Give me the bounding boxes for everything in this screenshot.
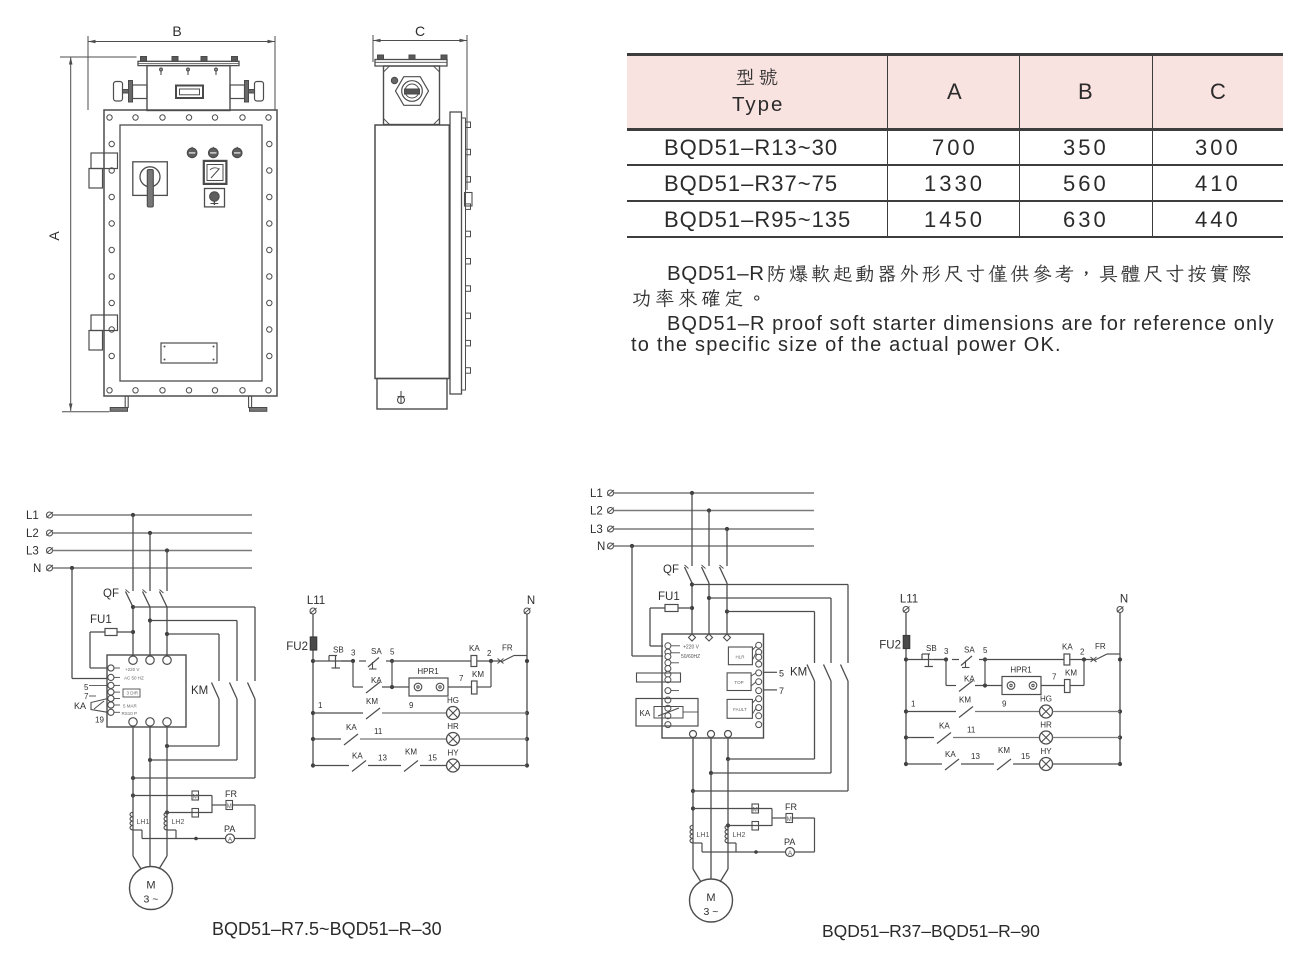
svg-text:KM: KM [472,670,484,679]
svg-text:HG: HG [447,696,459,705]
svg-text:LH2: LH2 [733,832,746,839]
svg-text:PA: PA [224,824,235,834]
svg-text:KA: KA [1062,643,1073,652]
svg-text:SA: SA [964,646,975,655]
svg-text:FR: FR [502,644,513,653]
svg-text:HR: HR [1040,721,1052,730]
svg-text:9: 9 [409,701,414,710]
svg-text:RS10 P: RS10 P [122,711,138,716]
svg-text:HPR1: HPR1 [1010,666,1032,675]
svg-text:LH2: LH2 [172,819,185,826]
svg-text:C: C [415,23,425,39]
svg-text:N: N [1120,594,1128,606]
svg-text:TOP: TOP [734,680,743,685]
svg-text:L2: L2 [26,528,39,540]
svg-text:QF: QF [103,588,119,600]
svg-text:KA: KA [469,644,480,653]
svg-text:KM: KM [405,748,417,757]
svg-text:50/60HZ: 50/60HZ [681,654,700,660]
svg-text:LH1: LH1 [697,832,710,839]
svg-text:5: 5 [983,646,988,655]
svg-text:FU1: FU1 [90,614,112,626]
svg-text:SB: SB [926,644,937,653]
svg-text:SB: SB [333,646,344,655]
svg-text:7: 7 [459,674,464,683]
svg-text:HPR1: HPR1 [417,667,439,676]
svg-text:A: A [788,850,793,857]
svg-text:L11: L11 [900,594,918,606]
svg-text:1: 1 [911,700,916,709]
svg-text:HY: HY [1040,747,1052,756]
svg-text:5 MAR: 5 MAR [123,704,138,709]
svg-text:KA: KA [346,723,357,732]
svg-text:+220 V: +220 V [125,667,139,672]
svg-text:7: 7 [84,692,89,701]
svg-text:M: M [753,808,758,814]
svg-text:KA: KA [74,701,86,711]
svg-text:L2: L2 [590,506,603,518]
svg-text:M: M [146,880,155,892]
svg-text:QF: QF [663,564,679,576]
svg-text:2: 2 [1080,648,1085,657]
svg-text:5: 5 [84,683,89,692]
svg-text:L1: L1 [26,510,39,522]
svg-text:HY: HY [447,749,459,758]
svg-text:FU2: FU2 [879,640,901,652]
svg-text:KA: KA [945,750,956,759]
svg-text:B: B [172,23,181,39]
svg-text:A: A [228,837,233,844]
svg-text:3 ~: 3 ~ [144,894,159,906]
svg-text:FR: FR [785,802,797,812]
svg-text:11: 11 [374,727,383,736]
svg-text:AC 50 HZ: AC 50 HZ [124,676,144,681]
svg-text:19: 19 [95,716,104,725]
svg-text:KM: KM [998,746,1010,755]
svg-text:3: 3 [351,649,356,658]
svg-text:13: 13 [378,754,387,763]
svg-text:FU2: FU2 [286,641,308,653]
svg-text:L3: L3 [26,546,39,558]
svg-text:L3: L3 [590,524,603,536]
svg-text:PA: PA [784,837,795,847]
svg-text:KA: KA [964,675,975,684]
svg-text:SA: SA [371,647,382,656]
svg-text:FU1: FU1 [658,591,680,603]
svg-text:M: M [193,795,198,801]
svg-text:FAULT: FAULT [733,707,747,712]
svg-text:5: 5 [390,648,395,657]
svg-text:FR: FR [1095,642,1106,651]
svg-text:L11: L11 [307,595,325,607]
svg-text:KA: KA [371,676,382,685]
svg-text:M: M [706,892,715,904]
svg-text:+220 V: +220 V [683,645,700,651]
svg-text:5: 5 [779,669,784,679]
svg-text:15: 15 [1021,752,1030,761]
svg-text:3 ~: 3 ~ [704,906,719,918]
svg-text:KM: KM [959,696,971,705]
svg-text:N: N [527,595,535,607]
svg-text:N: N [33,563,41,575]
svg-text:KM: KM [191,685,208,697]
svg-text:KA: KA [352,752,363,761]
svg-text:KM: KM [790,667,807,679]
svg-text:HLR: HLR [735,655,745,660]
svg-text:13: 13 [971,752,980,761]
svg-text:N: N [597,541,605,553]
svg-text:3: 3 [944,647,949,656]
svg-text:HR: HR [447,722,459,731]
svg-text:M: M [787,817,792,823]
svg-text:LH1: LH1 [137,819,150,826]
svg-text:9: 9 [1002,700,1007,709]
svg-text:2: 2 [487,649,492,658]
svg-text:M: M [227,804,232,810]
svg-text:11: 11 [967,726,976,735]
svg-text:3 DIR: 3 DIR [127,691,139,696]
svg-text:KM: KM [366,697,378,706]
svg-text:7: 7 [779,686,784,696]
svg-text:FR: FR [225,789,237,799]
svg-text:A: A [46,231,62,241]
svg-text:15: 15 [428,754,437,763]
svg-text:7: 7 [1052,673,1057,682]
svg-text:KA: KA [640,709,651,718]
svg-text:HG: HG [1040,695,1052,704]
svg-text:1: 1 [318,701,323,710]
svg-text:L1: L1 [590,488,603,500]
svg-text:KM: KM [1065,669,1077,678]
svg-text:KA: KA [939,722,950,731]
